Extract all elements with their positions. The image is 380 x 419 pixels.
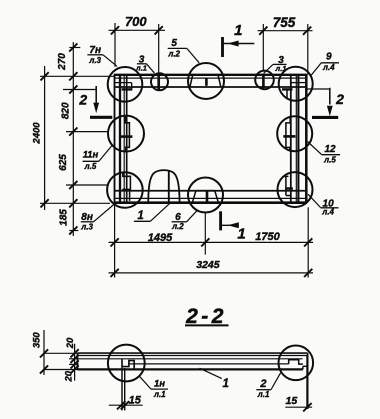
svg-text:9: 9 [326,52,332,63]
svg-text:3245: 3245 [196,259,220,271]
svg-text:625: 625 [58,154,69,171]
svg-text:1750: 1750 [255,231,280,243]
svg-text:820: 820 [61,102,72,119]
svg-text:15: 15 [286,395,298,407]
svg-text:12: 12 [324,144,336,155]
svg-text:1: 1 [237,226,245,243]
svg-text:2: 2 [259,378,266,390]
svg-text:л.5: л.5 [84,162,97,171]
svg-text:1: 1 [222,378,228,390]
svg-text:20: 20 [64,370,75,382]
svg-text:185: 185 [59,209,70,226]
svg-text:2-2: 2-2 [185,305,227,328]
svg-text:11н: 11н [83,150,99,161]
svg-text:5: 5 [171,38,177,49]
svg-text:л.1: л.1 [257,390,270,399]
svg-text:20: 20 [65,337,76,349]
svg-text:л.3: л.3 [88,56,101,65]
svg-text:1: 1 [137,210,143,222]
svg-text:270: 270 [57,53,68,71]
svg-text:л.4: л.4 [321,208,334,217]
svg-text:700: 700 [125,14,147,29]
svg-text:2400: 2400 [32,122,43,145]
svg-text:1495: 1495 [148,232,173,244]
svg-text:л.4: л.4 [322,63,335,72]
svg-text:1: 1 [234,22,242,39]
svg-text:л.3: л.3 [80,223,93,232]
svg-text:л.1: л.1 [153,390,166,399]
svg-text:л.2: л.2 [171,222,184,231]
svg-text:15: 15 [129,395,142,407]
svg-text:350: 350 [32,332,43,349]
svg-text:2: 2 [335,91,344,107]
svg-text:л.2: л.2 [167,50,180,59]
svg-text:1н: 1н [154,378,165,389]
svg-text:л.5: л.5 [323,155,336,164]
svg-text:л.1: л.1 [135,64,147,73]
svg-text:755: 755 [273,15,296,30]
svg-text:л.1: л.1 [275,64,287,73]
svg-text:2: 2 [78,91,87,107]
